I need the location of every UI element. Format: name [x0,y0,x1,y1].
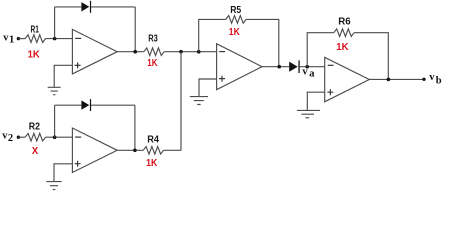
wire U1 feedback top left segment [55,6,82,8]
node v2 [2,131,13,145]
svg-text:2: 2 [8,133,13,144]
node v1 [3,32,14,45]
wire U2 feedback top left segment [55,104,82,106]
svg-text:b: b [436,76,442,87]
wire R2 to U2 inverting input [46,136,73,138]
svg-text:X: X [32,146,39,157]
value 1K (R5) [229,27,241,38]
resistor R6 [334,29,354,37]
svg-text:1K: 1K [146,158,158,169]
label R6 [338,17,351,28]
svg-text:R1: R1 [31,24,40,35]
node va label [302,67,315,80]
label R2 [29,122,41,133]
op-amp U2 [72,128,117,173]
svg-text:R4: R4 [147,135,159,146]
wire v2 to R2 [18,136,25,138]
wire U4 output to vb [369,78,424,80]
svg-text:1K: 1K [147,58,158,69]
svg-text:1K: 1K [229,27,241,38]
resistor R3 [144,48,164,56]
wire D3 to U4 inverting input [300,66,325,68]
junction dot at U1 inverting input [53,37,57,41]
diode D1 [81,1,91,13]
ground (U2) [46,182,61,190]
label R3 [148,34,158,45]
ground (U4) [297,110,320,117]
wire R5 left riser [199,19,226,51]
value X (R2) [32,146,39,157]
node vb [429,72,442,87]
wire U1 output [117,51,144,53]
wire U1 feedback right drop [134,7,136,52]
wire R6 right side to U4 output [354,33,388,80]
wire U1 feedback top right segment [91,6,135,8]
op-amp U4 [325,57,370,102]
ground (U3) [190,97,208,105]
svg-text:R2: R2 [29,122,41,133]
svg-text:R6: R6 [338,17,351,28]
wire R5 right side to U3 output [246,19,279,66]
wire U3 noninverting input to ground [199,79,217,97]
wire U2 feedback right drop [134,105,136,150]
op-amp U3 [217,44,262,90]
junction dot R5 branch [197,50,201,54]
wire U4 noninverting input to ground [307,92,324,110]
wire U3 output [262,66,289,68]
resistor R2 [25,133,45,141]
value 1K (R1) [28,50,41,61]
terminal dot vb [422,78,425,81]
value 1K (R3) [147,58,158,69]
diode D2 [81,99,91,111]
junction dot U4 output [387,78,391,82]
junction dot node va [305,65,309,69]
diode D3 [289,60,299,73]
wire U2 feedback top right segment [91,104,135,106]
label R4 [147,135,159,146]
label R5 [230,5,241,16]
junction dot R4 branch [179,50,183,54]
resistor R4 [143,147,163,155]
terminal dot v1 [17,37,20,40]
wire R4 riser to summing node [180,52,182,151]
wire U2 feedback left riser [54,105,56,137]
svg-text:R5: R5 [230,5,241,16]
value 1K (R6) [336,42,349,53]
wire U1 noninverting input to ground [54,65,72,87]
junction dot U2 output [133,149,137,153]
svg-text:v: v [429,72,435,83]
wire v1 to R1 [18,38,25,40]
svg-text:1K: 1K [336,42,349,53]
wire R4 to riser [164,149,182,151]
junction dot U1 output [133,50,137,54]
svg-text:R3: R3 [148,34,158,45]
resistor R5 [226,16,246,24]
wire U2 noninverting input to ground [54,164,72,182]
junction dot U3 output [277,65,281,69]
wire R6 left riser [307,33,334,67]
resistor R1 [25,35,45,43]
wire R3 to U3 inverting input [164,51,216,53]
wire U1 feedback left riser [54,7,56,39]
junction dot at U2 inverting input [53,135,57,139]
value 1K (R4) [146,158,158,169]
ground (U1) [48,87,61,94]
wire U2 output [117,149,143,151]
label R1 [31,24,40,35]
op-amp U1 [72,29,117,74]
wire R1 to U1 inverting input [46,38,73,40]
svg-text:1: 1 [9,35,14,46]
svg-text:v: v [302,67,308,78]
terminal dot v2 [17,136,20,139]
svg-text:a: a [309,69,315,80]
svg-text:1K: 1K [28,50,41,61]
